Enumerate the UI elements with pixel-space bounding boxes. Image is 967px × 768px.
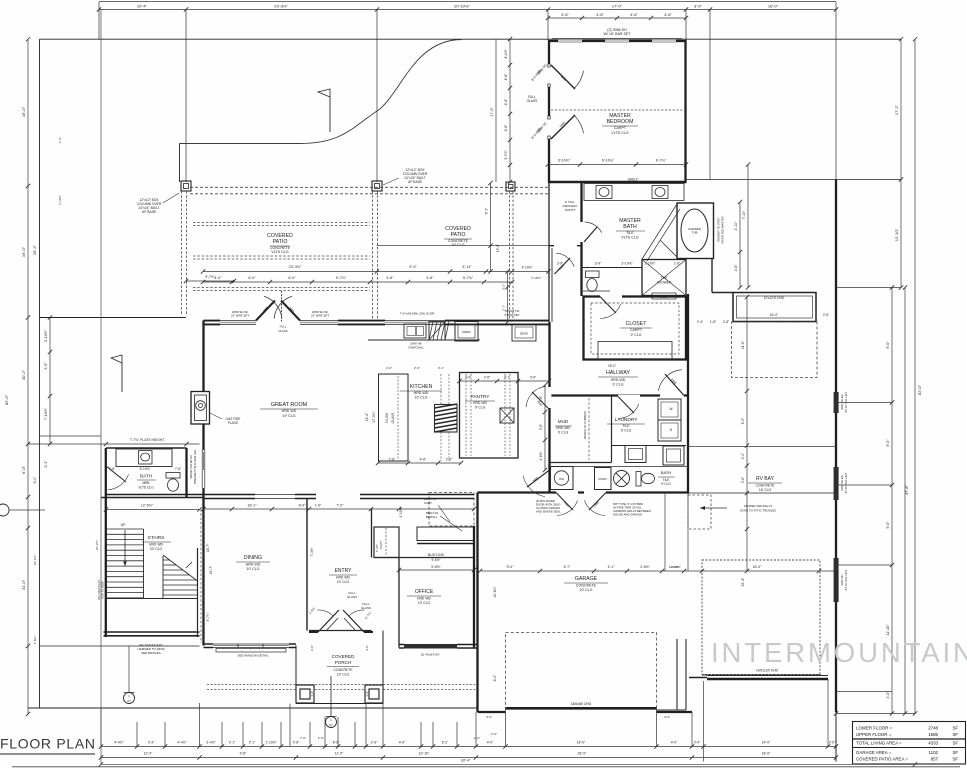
master bath door opening	[580, 222, 584, 242]
svg-text:FULL: FULL	[280, 325, 287, 329]
svg-text:10' CLG: 10' CLG	[337, 580, 350, 584]
svg-text:3'-10½": 3'-10½"	[558, 159, 571, 163]
shower	[642, 260, 686, 296]
svg-text:BENCH W/ CUBBIES: BENCH W/ CUBBIES	[583, 411, 587, 439]
porch dotted lines	[207, 684, 477, 686]
svg-text:UP BASE: UP BASE	[408, 180, 423, 184]
svg-text:9' CLG: 9' CLG	[475, 406, 486, 410]
rv bay west wall	[687, 294, 689, 493]
svg-text:14'-0": 14'-0"	[762, 741, 771, 745]
svg-text:GREAT ROOM: GREAT ROOM	[271, 402, 308, 408]
svg-text:7'-4½": 7'-4½"	[375, 544, 379, 552]
svg-text:3'-6": 3'-6"	[539, 424, 543, 430]
dim dropline x836 upper	[835, 2, 837, 180]
svg-text:VLTD CLG: VLTD CLG	[621, 236, 639, 240]
southwest patio line	[39, 645, 200, 647]
svg-text:12'-10": 12'-10"	[894, 228, 899, 241]
svg-text:6'-0": 6'-0"	[248, 276, 256, 280]
bath north wall	[106, 447, 187, 449]
svg-text:3'-6": 3'-6"	[539, 396, 543, 402]
east wall lower	[835, 712, 837, 762]
svg-text:BATH: BATH	[661, 470, 671, 475]
svg-text:4'-0": 4'-0"	[886, 691, 890, 699]
svg-text:7'-6": 7'-6"	[389, 458, 397, 462]
svg-text:BUILT-INS: BUILT-INS	[428, 553, 445, 557]
center patio dashed ceiling line 1	[193, 222, 370, 224]
svg-text:6'-5": 6'-5"	[741, 418, 745, 424]
rv dropline x665	[664, 493, 666, 571]
patio dim row 1	[203, 271, 549, 273]
svg-text:3'-0": 3'-0"	[694, 4, 703, 9]
svg-text:SEE BRACES: SEE BRACES	[141, 651, 160, 655]
office south wall	[399, 644, 478, 646]
svg-text:A7: A7	[329, 723, 333, 727]
svg-text:4'-0": 4'-0"	[214, 276, 222, 280]
svg-text:4'-8": 4'-8"	[504, 73, 508, 81]
svg-text:2'-1": 2'-1"	[229, 741, 236, 745]
svg-text:GLASS: GLASS	[347, 595, 357, 599]
garage west wall	[476, 493, 478, 713]
svg-text:4'-6": 4'-6"	[386, 276, 394, 280]
site top boundary line	[40, 38, 902, 40]
svg-text:4333: 4333	[928, 741, 938, 746]
kitchen north window	[385, 319, 445, 326]
svg-text:3'-2": 3'-2"	[502, 284, 506, 290]
entry east wall	[371, 509, 373, 558]
svg-text:11'-10": 11'-10"	[886, 624, 890, 636]
hallway south wall	[549, 394, 689, 396]
tub east wall	[711, 259, 713, 293]
svg-text:4'-8": 4'-8"	[504, 98, 508, 106]
svg-text:SF: SF	[953, 757, 959, 762]
svg-text:1: 1	[330, 718, 332, 722]
rv pass door header	[712, 292, 733, 294]
patio column B	[372, 181, 382, 191]
svg-text:1585: 1585	[928, 732, 938, 737]
dining east wall	[306, 499, 308, 631]
svg-text:W: W	[669, 407, 672, 411]
svg-text:2'-1": 2'-1"	[249, 741, 256, 745]
office west wall	[398, 558, 400, 648]
svg-text:5'-7": 5'-7"	[564, 565, 572, 569]
dining south wall windows	[204, 643, 297, 645]
sloped ceiling dashed box	[688, 495, 711, 529]
svg-text:3'-0": 3'-0"	[365, 645, 369, 651]
stairs east wall	[197, 548, 199, 637]
svg-text:82'-4": 82'-4"	[461, 759, 471, 763]
north wall window west2	[300, 319, 338, 326]
svg-text:3'-1": 3'-1"	[438, 366, 444, 370]
corridor door arc 1	[556, 491, 578, 494]
vanity sink left	[596, 186, 612, 199]
svg-text:8'-2": 8'-2"	[493, 674, 497, 682]
svg-text:3'-0": 3'-0"	[310, 645, 314, 651]
inner left dim line x50	[49, 318, 51, 445]
svg-text:BATH: BATH	[140, 474, 152, 479]
rv stall dashed	[702, 560, 820, 675]
kitchen south dim row	[378, 462, 461, 464]
utility south line	[550, 466, 690, 468]
svg-text:9'-5½": 9'-5½"	[431, 558, 440, 562]
nook dashed cabinet	[429, 493, 474, 527]
svg-text:TILE: TILE	[661, 276, 668, 280]
svg-text:4'-0": 4'-0"	[487, 741, 494, 745]
east wall windows	[834, 392, 839, 413]
great room west wall lower	[202, 424, 204, 498]
north wall french door	[256, 319, 300, 327]
svg-text:WH: WH	[559, 477, 564, 481]
rv bay north thin line	[689, 492, 836, 494]
bath hall south wall	[101, 497, 204, 499]
svg-text:4'-6": 4'-6"	[420, 458, 428, 462]
svg-text:17'-0": 17'-0"	[490, 107, 494, 117]
pantry window x	[500, 408, 514, 423]
hall north wall	[549, 245, 582, 247]
entry angled door walls	[309, 631, 318, 633]
kitchen sink	[404, 324, 426, 338]
svg-text:21" BAR SET: 21" BAR SET	[231, 314, 249, 318]
svg-text:4'-0": 4'-0"	[486, 715, 492, 719]
water closet walls	[582, 267, 643, 269]
svg-text:1'-4": 1'-4"	[365, 691, 369, 697]
svg-text:16' CLG: 16' CLG	[759, 488, 772, 492]
svg-text:10' CLG: 10' CLG	[418, 601, 431, 605]
svg-text:MRB: MRB	[142, 481, 149, 485]
mud room west wall	[548, 322, 550, 493]
svg-text:20' CLG: 20' CLG	[150, 547, 163, 551]
section marker porch	[326, 717, 337, 728]
svg-text:1'-6": 1'-6"	[315, 504, 321, 508]
svg-text:RV BAY: RV BAY	[756, 476, 775, 482]
coat closet	[374, 527, 399, 558]
svg-text:4'-0": 4'-0"	[664, 715, 670, 719]
svg-text:2'-10": 2'-10"	[734, 221, 738, 230]
laundry walls	[612, 445, 687, 447]
svg-text:W/ 18" BAR SET: W/ 18" BAR SET	[603, 32, 631, 36]
garden tub platform	[677, 203, 714, 259]
right outer dim line x915	[914, 39, 916, 713]
svg-text:9'-0": 9'-0"	[409, 265, 417, 269]
svg-text:82'-0": 82'-0"	[917, 384, 922, 395]
svg-text:2'-0": 2'-0"	[446, 458, 454, 462]
site left boundary outer	[27, 39, 29, 714]
patio column A	[181, 181, 191, 191]
svg-text:FURN: FURN	[598, 477, 606, 481]
porch north threshold	[309, 630, 372, 632]
svg-text:SHWR SEE MASTER: SHWR SEE MASTER	[721, 216, 725, 243]
stairs south wall	[104, 631, 200, 633]
svg-text:2'-6": 2'-6"	[823, 313, 829, 317]
bottom dim line 1	[101, 746, 836, 748]
svg-text:HRD WD: HRD WD	[246, 563, 261, 567]
garage rv divider	[676, 639, 678, 710]
svg-text:2'-1": 2'-1"	[44, 460, 48, 468]
svg-text:CARPT: CARPT	[630, 328, 643, 332]
svg-text:4'-10½": 4'-10½"	[522, 266, 533, 270]
svg-text:GARAGE AREA =: GARAGE AREA =	[856, 750, 892, 755]
master bedroom windows north	[558, 39, 582, 42]
svg-text:4'-6": 4'-6"	[596, 13, 604, 17]
svg-text:AT 10' SILL HGT: AT 10' SILL HGT	[844, 472, 848, 493]
svg-text:857: 857	[931, 757, 939, 762]
dim dropline x548	[547, 10, 549, 40]
dimension line top border	[99, 1, 836, 3]
svg-text:HRD WD: HRD WD	[473, 401, 487, 405]
closet door arc	[600, 295, 622, 298]
master bath west wall	[580, 182, 582, 296]
walkway roof line	[377, 245, 549, 247]
svg-text:HRD WD: HRD WD	[417, 597, 431, 601]
svg-text:GARAGE: GARAGE	[575, 576, 598, 582]
svg-text:12'-0": 12'-0"	[144, 752, 153, 756]
svg-text:11'-6": 11'-6"	[741, 341, 745, 349]
svg-text:4'-6": 4'-6"	[664, 13, 672, 17]
svg-text:2'-0": 2'-0"	[694, 741, 701, 745]
east main wall	[835, 180, 837, 713]
bottom dim line 3	[101, 763, 915, 765]
svg-text:8'-1": 8'-1"	[485, 208, 489, 214]
svg-text:7'-7¾" PLATE HEIGHT: 7'-7¾" PLATE HEIGHT	[130, 438, 165, 442]
master bedroom walls	[549, 41, 686, 182]
svg-text:18'-0": 18'-0"	[577, 741, 586, 745]
svg-text:DISPOSAL: DISPOSAL	[408, 346, 423, 350]
svg-text:BATH: BATH	[623, 224, 637, 230]
svg-text:10' CLG: 10' CLG	[414, 396, 427, 400]
svg-text:9' CLG: 9' CLG	[661, 482, 671, 486]
svg-text:8'-0 HDR: 8'-0 HDR	[530, 68, 542, 82]
bottom right dim line	[836, 713, 915, 715]
patio dim 9-7	[186, 280, 234, 282]
svg-text:9' CLG: 9' CLG	[558, 431, 569, 435]
svg-text:11'-0": 11'-0"	[335, 752, 344, 756]
porch east edge	[382, 631, 384, 704]
svg-text:7'-4½": 7'-4½"	[310, 547, 314, 556]
closet walls	[584, 297, 687, 360]
svg-text:26'-0": 26'-0"	[578, 752, 587, 756]
svg-text:GLASS: GLASS	[361, 606, 371, 610]
mud south wall	[550, 462, 612, 464]
svg-text:HRD WD: HRD WD	[282, 409, 297, 413]
svg-text:1'-6": 1'-6"	[674, 262, 680, 266]
nook bench	[417, 527, 474, 541]
svg-text:1'-4": 1'-4"	[310, 691, 314, 697]
garage south wall	[478, 711, 506, 713]
closet inner shelf	[598, 342, 672, 360]
dim dropline x186	[185, 10, 187, 182]
pantry mud dim col	[544, 385, 546, 470]
svg-text:SF: SF	[953, 750, 959, 755]
svg-text:3'-4½": 3'-4½"	[206, 741, 216, 745]
svg-text:18'-0": 18'-0"	[762, 752, 771, 756]
svg-text:HRD WD: HRD WD	[556, 426, 570, 430]
svg-text:TILE: TILE	[626, 231, 634, 235]
svg-text:4'-4½": 4'-4½"	[114, 741, 124, 745]
rv bay mid tick line	[689, 446, 836, 448]
closet rod dashed	[591, 303, 679, 354]
bottom dim line 2	[101, 757, 836, 759]
area table box	[853, 722, 966, 765]
svg-text:17'-5¾": 17'-5¾"	[372, 410, 376, 422]
area table separators	[853, 738, 966, 740]
svg-text:2'-4": 2'-4"	[697, 320, 703, 324]
svg-text:31'-0": 31'-0"	[21, 579, 26, 590]
svg-text:18'-7": 18'-7"	[206, 543, 210, 552]
svg-text:7'-2": 7'-2"	[336, 504, 344, 508]
svg-text:8' BAR SET: 8' BAR SET	[505, 313, 520, 317]
rv stall dim	[689, 570, 836, 572]
svg-text:PLACE: PLACE	[228, 421, 238, 425]
svg-text:HALLWAY: HALLWAY	[606, 370, 630, 376]
svg-text:10'-2½": 10'-2½"	[33, 555, 37, 565]
pantry shelves dotted	[465, 374, 467, 456]
svg-text:TUB: TUB	[692, 231, 698, 235]
dimension line top row	[99, 9, 836, 11]
great room west wall upper	[202, 321, 204, 392]
office east wall	[473, 526, 475, 648]
patio corner step	[179, 144, 181, 183]
svg-text:2'-6": 2'-6"	[484, 376, 490, 380]
svg-text:SF: SF	[953, 741, 959, 746]
tub corner diagonals	[642, 204, 677, 259]
svg-text:3'-7¾": 3'-7¾"	[206, 612, 210, 621]
svg-text:4'-10½": 4'-10½"	[399, 507, 403, 518]
svg-text:2868: 2868	[559, 120, 567, 128]
dim dropline x710	[709, 10, 711, 180]
patio slider door west	[201, 450, 206, 488]
svg-text:21" BAR SET: 21" BAR SET	[311, 314, 329, 318]
svg-text:9'-0": 9'-0"	[21, 465, 26, 474]
great room north wall	[204, 320, 550, 322]
svg-text:FLOOR PLAN: FLOOR PLAN	[0, 736, 96, 752]
svg-text:9'-0": 9'-0"	[886, 341, 890, 349]
svg-text:CLOSET: CLOSET	[626, 321, 648, 327]
patio dim col x507	[507, 272, 509, 323]
title underline	[0, 753, 95, 755]
hall west wall upper	[548, 182, 550, 246]
svg-text:ENTRY: ENTRY	[335, 568, 353, 574]
rv interior door	[733, 293, 816, 322]
svg-text:GLASS: GLASS	[527, 99, 538, 103]
svg-text:16'-2": 16'-2"	[32, 244, 37, 255]
svg-text:2'-6": 2'-6"	[734, 264, 738, 272]
svg-text:7'-10": 7'-10"	[742, 210, 746, 219]
svg-text:PANTRY: PANTRY	[470, 394, 490, 400]
rv dim col x747	[746, 297, 748, 571]
dim dropline x99	[98, 2, 100, 39]
svg-text:MUD: MUD	[558, 419, 569, 424]
svg-text:4'-6": 4'-6"	[630, 13, 638, 17]
svg-text:6'-7¾": 6'-7¾"	[364, 611, 372, 620]
column dotted vertical A	[181, 191, 183, 316]
mid wall dining entry	[106, 494, 474, 496]
svg-text:15'-0": 15'-0"	[608, 364, 616, 368]
right dim line x901	[900, 39, 902, 287]
master bath vanity	[584, 184, 684, 201]
stairs diagonal break	[163, 555, 198, 581]
stairs side dashed	[200, 509, 202, 643]
svg-text:14/0x12/0 OHD: 14/0x12/0 OHD	[756, 669, 779, 673]
house west wall	[105, 448, 107, 637]
shower shelf	[652, 293, 676, 299]
svg-text:10' CLG: 10' CLG	[451, 243, 464, 247]
svg-text:CARPT: CARPT	[614, 126, 627, 130]
svg-text:HD 7/16x4-6 EXT: HD 7/16x4-6 EXT	[97, 579, 101, 600]
svg-text:16'-0": 16'-0"	[770, 313, 779, 317]
svg-text:UP: UP	[121, 523, 126, 527]
svg-text:AT 10' SILL HGT: AT 10' SILL HGT	[844, 391, 848, 412]
master bedroom window sill line	[552, 38, 682, 40]
svg-text:4'-0": 4'-0"	[671, 741, 678, 745]
kitchen island	[379, 374, 409, 461]
svg-text:5'-7¾": 5'-7¾"	[336, 276, 347, 280]
powder toilet	[636, 472, 641, 487]
svg-text:3'-11": 3'-11"	[462, 265, 472, 269]
master bedroom west door upper	[547, 64, 551, 87]
svg-text:CONCRETE: CONCRETE	[333, 668, 353, 672]
svg-text:VLTD CLG: VLTD CLG	[138, 486, 154, 490]
patio eave dashed line	[190, 186, 548, 188]
left lot line lower	[100, 10, 102, 765]
svg-text:TOTAL LIVING AREA =: TOTAL LIVING AREA =	[856, 741, 902, 746]
svg-text:6'-0": 6'-0"	[333, 741, 340, 745]
svg-text:18'-1": 18'-1"	[247, 504, 257, 508]
rv apron verticals	[703, 681, 705, 762]
left dim line y444	[28, 443, 106, 445]
rv door line	[707, 678, 828, 680]
floor drain	[614, 471, 630, 487]
svg-text:17'-2": 17'-2"	[894, 104, 899, 115]
refrigerator	[455, 322, 478, 342]
svg-text:COVERED: COVERED	[332, 654, 355, 659]
svg-text:2'-2": 2'-2"	[741, 453, 745, 459]
svg-text:4/0x5/0 SLD W/ 1/0: 4/0x5/0 SLD W/ 1/0	[189, 455, 193, 479]
svg-text:13'-6": 13'-6"	[496, 244, 500, 252]
mud room east wall	[611, 397, 613, 463]
patio dim row 2	[203, 281, 512, 283]
svg-text:19'-2": 19'-2"	[365, 412, 369, 421]
svg-text:COAT: COAT	[379, 541, 383, 549]
svg-text:1'-6": 1'-6"	[58, 137, 62, 143]
svg-text:HOUSE AND GARAGE: HOUSE AND GARAGE	[613, 513, 642, 517]
east patio south line	[686, 179, 901, 181]
svg-text:23'-3½": 23'-3½"	[289, 265, 302, 269]
tub dim col	[739, 202, 741, 288]
svg-text:TRNSOM AT W FLOOR HGT: TRNSOM AT W FLOOR HGT	[193, 449, 197, 484]
svg-text:1'-8": 1'-8"	[710, 320, 716, 324]
svg-text:6'-10½": 6'-10½"	[140, 467, 151, 471]
rv dropline x688	[687, 493, 689, 571]
svg-text:1'-0": 1'-0"	[318, 736, 324, 740]
svg-text:SF: SF	[953, 726, 959, 731]
dim dropline x686	[685, 10, 687, 40]
stairs well wall left	[143, 529, 145, 599]
rv stall bottom solid	[702, 674, 821, 676]
svg-text:12'-8¼": 12'-8¼"	[493, 585, 497, 597]
svg-text:COVERED PATIO AREA =: COVERED PATIO AREA =	[856, 757, 908, 762]
svg-text:16'-7": 16'-7"	[209, 565, 213, 574]
range dotted verticals	[440, 374, 442, 404]
svg-text:1: 1	[128, 694, 130, 698]
svg-text:HRD WD: HRD WD	[414, 391, 429, 395]
svg-text:SEE WINDOW DETAIL: SEE WINDOW DETAIL	[237, 654, 268, 658]
svg-text:2868: 2868	[593, 500, 601, 508]
center patio dashed ceiling line 2	[193, 255, 370, 257]
svg-text:9'-0": 9'-0"	[886, 439, 890, 447]
porch west edge	[295, 646, 297, 704]
svg-text:82'-0": 82'-0"	[4, 394, 9, 405]
svg-text:17'-0": 17'-0"	[612, 4, 623, 9]
bath vanity	[116, 449, 172, 467]
